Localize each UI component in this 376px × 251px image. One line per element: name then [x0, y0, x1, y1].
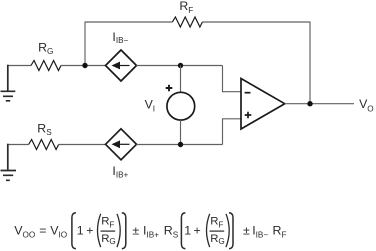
equation paren )1 — [117, 214, 120, 247]
resistor RG — [31, 61, 61, 71]
voltage source VI — [167, 92, 195, 120]
svg-text:+: + — [86, 223, 93, 237]
current source IIB- diamond — [106, 50, 137, 81]
op-amp minus sign — [245, 92, 251, 94]
equation bracket ]1 — [122, 213, 126, 249]
wire VI bottom vertical — [180, 120, 182, 144]
resistor RF — [172, 17, 202, 27]
svg-text:±: ± — [243, 223, 250, 237]
svg-text:+: + — [194, 223, 201, 237]
node C (VI bottom) — [178, 142, 183, 147]
svg-text:±: ± — [132, 223, 139, 237]
svg-text:1: 1 — [77, 223, 84, 237]
equation paren (1 — [98, 214, 101, 247]
equation VOO — [14, 213, 286, 249]
wire feedback left vertical — [84, 22, 86, 66]
wire output — [285, 103, 354, 105]
op-amp U1 — [241, 79, 285, 130]
ground 2 — [1, 171, 17, 181]
node D (output) — [307, 101, 312, 106]
equation bracket [2 — [181, 213, 185, 249]
equation fraction 2 bar — [210, 230, 225, 232]
wire feedback top right segment — [202, 21, 310, 23]
wire RS to IIB+ diamond — [59, 144, 106, 146]
equation paren (2 — [207, 214, 210, 247]
current source IIB+ arrow — [112, 140, 121, 148]
current source IIB+ diamond — [106, 129, 137, 160]
current source IIB- arrow — [112, 62, 121, 70]
ground stub 1 — [7, 65, 9, 91]
wire RG to IIB- diamond — [61, 65, 106, 67]
wire VI top vertical — [180, 66, 182, 93]
wire feedback top left segment — [85, 21, 173, 23]
equation paren )2 — [226, 214, 229, 247]
wire IIB- diamond to jog — [137, 65, 223, 67]
svg-text:1: 1 — [184, 223, 191, 237]
svg-text:=: = — [39, 223, 46, 237]
equation bracket [1 — [72, 213, 76, 249]
wire ground1 to RG — [8, 65, 31, 67]
op-amp plus sign — [245, 112, 252, 119]
ground stub 2 — [7, 144, 9, 170]
ground 1 — [1, 91, 16, 101]
equation bracket ]2 — [229, 213, 233, 249]
wire jog up to non-inverting input — [223, 119, 242, 145]
wire ground2 to RS — [8, 144, 29, 146]
wire IIB+ diamond to jog — [137, 144, 223, 146]
resistor RS — [29, 140, 59, 150]
node B (VI top) — [178, 63, 183, 68]
wire jog down to inverting input — [223, 66, 242, 92]
equation fraction 1 bar — [101, 230, 116, 232]
VI plus sign — [166, 85, 173, 92]
wire feedback right vertical — [309, 22, 311, 104]
node A (inverting input net) — [82, 63, 87, 68]
